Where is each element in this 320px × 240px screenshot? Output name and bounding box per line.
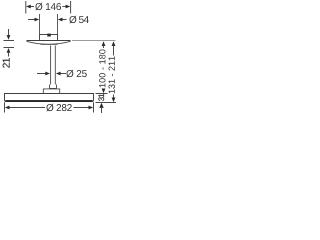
dimension O282 value label "O 282"	[46, 104, 72, 112]
ceiling reference line (gray)	[72, 40, 116, 42]
left dimension 21: upper arrow (pointing down)	[7, 29, 11, 40]
dimension O146 left arrow	[26, 5, 34, 9]
ceiling connector dome	[40, 35, 58, 41]
dimension O54 extension line right	[57, 14, 59, 35]
dimension O54 left arrow (pointing right)	[28, 18, 39, 22]
dimension O54 value label "O 54"	[69, 16, 89, 24]
left dimension 21: lower arrow (pointing up)	[7, 48, 11, 57]
small dimension 31 value label (rotated)	[98, 94, 104, 101]
dimension O25 value label "O 25"	[66, 70, 87, 78]
left dimension 21 value label (rotated)	[3, 58, 10, 68]
right inner dimension 100-180 top arrow (pointing up)	[102, 41, 106, 48]
small dimension 31 lower arrow (pointing up)	[99, 103, 103, 113]
dimension O282 left arrow	[5, 106, 45, 110]
shower head body	[5, 94, 94, 102]
dimension O282 extension line left	[4, 102, 6, 112]
shower pipe right line	[54, 46, 56, 85]
dimension O282 right arrow	[74, 106, 94, 110]
right inner dimension value label "100 - 180" (rotated)	[99, 50, 105, 88]
dimension O146 extension line left	[25, 1, 27, 14]
ceiling plate top edge	[27, 40, 71, 42]
dimension O54 right arrow (pointing left)	[58, 18, 67, 22]
left dimension 21: bottom extension line	[4, 47, 15, 49]
dimension O146 right arrow	[63, 5, 71, 9]
shower head spray face (thick bottom edge)	[5, 100, 92, 102]
head bottom extension line (right)	[96, 102, 117, 104]
dimension O54 extension line left	[39, 14, 41, 35]
dome top notch	[47, 34, 51, 37]
right outer dimension 131-211 top arrow (pointing up)	[112, 41, 116, 55]
right outer dimension 131-211 bottom arrow (pointing down)	[112, 95, 116, 103]
head connector collar	[50, 85, 57, 89]
ceiling plate underside	[27, 41, 71, 44]
dimension O282 extension line right	[93, 102, 95, 112]
head connector base	[43, 89, 59, 94]
dimension O25 left arrow (pointing right)	[37, 72, 50, 76]
dimension O146 value label "O 146"	[35, 3, 61, 11]
right outer dimension value label "131 - 211" (rotated)	[109, 56, 115, 93]
left dimension 21: top extension line	[4, 40, 15, 42]
dimension O146 extension line right	[70, 1, 72, 14]
right inner dimension 100-180 bottom arrow (pointing down)	[102, 89, 106, 94]
head top extension line (right)	[96, 93, 108, 95]
shower pipe left line	[50, 46, 52, 85]
dimension O25 right arrow (pointing left)	[56, 72, 66, 76]
